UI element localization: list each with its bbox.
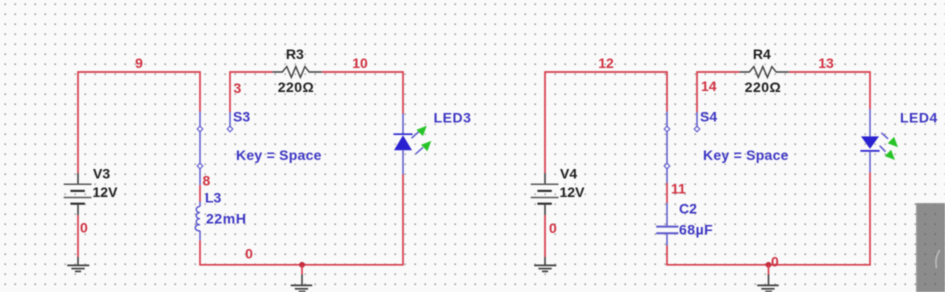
svg-text:13: 13 bbox=[818, 55, 834, 71]
LED3 light arrow 2 bbox=[416, 141, 432, 154]
svg-text:14: 14 bbox=[701, 78, 717, 94]
gray side panel (bottom right) bbox=[916, 203, 945, 292]
resistor R4 bbox=[740, 67, 789, 78]
switch S3 bbox=[200, 112, 230, 185]
svg-text:0: 0 bbox=[549, 220, 557, 236]
junction dot net 0 (left) bbox=[299, 262, 305, 268]
wire net 12 (battery V4 top to switch S4) bbox=[545, 72, 667, 173]
svg-text:11: 11 bbox=[671, 181, 686, 197]
switch S4 terminal diamonds bbox=[664, 126, 700, 169]
svg-text:S4: S4 bbox=[700, 109, 717, 125]
svg-text:L3: L3 bbox=[205, 190, 222, 206]
battery V4 bbox=[531, 173, 559, 215]
LED3 bbox=[393, 114, 412, 175]
svg-text:9: 9 bbox=[135, 55, 143, 71]
wire net 11 (switch S4 to capacitor) bbox=[666, 183, 668, 203]
svg-text:R4: R4 bbox=[753, 46, 771, 62]
wire net 8 (switch to inductor) bbox=[199, 185, 201, 202]
svg-text:68µF: 68µF bbox=[679, 222, 713, 238]
wire net 10 (resistor to LED top) bbox=[322, 72, 403, 114]
ground (left circuit) bbox=[291, 275, 313, 292]
wire net 0 bottom right (LED4 bottom, bottom rail, capacitor bottom) bbox=[667, 172, 870, 264]
wire net 14 (switch throw stub to resistor R4) bbox=[697, 72, 740, 112]
battery V3 bbox=[64, 173, 92, 215]
junction dot net 0 (right) bbox=[766, 262, 772, 268]
ground (right circuit) bbox=[757, 275, 779, 292]
inductor L3 bbox=[195, 202, 200, 241]
svg-text:S3: S3 bbox=[233, 109, 250, 125]
svg-text:12V: 12V bbox=[93, 184, 119, 200]
wire battery V4 negative to ground bbox=[544, 215, 546, 257]
svg-text:8: 8 bbox=[203, 173, 211, 189]
svg-text:12V: 12V bbox=[560, 184, 586, 200]
svg-text:220Ω: 220Ω bbox=[278, 79, 315, 95]
svg-text:12: 12 bbox=[598, 55, 614, 71]
switch S4 bbox=[667, 112, 697, 184]
svg-text:0: 0 bbox=[771, 254, 779, 270]
svg-text:C2: C2 bbox=[679, 201, 697, 217]
LED3 light arrow 1 bbox=[412, 126, 427, 138]
svg-text:Key = Space: Key = Space bbox=[703, 147, 789, 163]
wire net 9 (battery top to switch) bbox=[78, 72, 200, 173]
switch S3 terminal diamonds bbox=[197, 126, 233, 169]
wire net 3 (switch throw stub to resistor) bbox=[230, 72, 273, 112]
wire battery negative to ground bbox=[77, 215, 79, 257]
ground (battery V4) bbox=[534, 257, 556, 271]
LED4 light arrow 1 bbox=[881, 133, 898, 147]
svg-text:V4: V4 bbox=[560, 166, 577, 182]
svg-text:0: 0 bbox=[80, 220, 88, 236]
svg-text:Key = Space: Key = Space bbox=[236, 147, 322, 163]
wire net 0 bottom (LED bottom, bottom rail, inductor bottom) bbox=[200, 175, 403, 265]
svg-text:R3: R3 bbox=[286, 46, 304, 62]
svg-text:22mH: 22mH bbox=[206, 211, 247, 227]
wire net 13 (resistor R4 to LED4 top) bbox=[789, 72, 870, 109]
svg-text:V3: V3 bbox=[93, 166, 110, 182]
LED4 bbox=[860, 109, 879, 172]
svg-text:220Ω: 220Ω bbox=[745, 79, 782, 95]
capacitor C2 bbox=[656, 203, 678, 246]
svg-text:3: 3 bbox=[234, 80, 242, 96]
ground stub wire (left) bbox=[301, 265, 303, 275]
svg-text:LED3: LED3 bbox=[434, 110, 472, 126]
svg-text:0: 0 bbox=[245, 246, 253, 262]
resistor R3 bbox=[273, 67, 322, 78]
svg-text:LED4: LED4 bbox=[900, 110, 938, 126]
svg-text:10: 10 bbox=[352, 55, 368, 71]
ground (battery V3) bbox=[67, 257, 89, 271]
LED4 light arrow 2 bbox=[880, 146, 895, 160]
ground stub wire (right) bbox=[768, 265, 770, 275]
